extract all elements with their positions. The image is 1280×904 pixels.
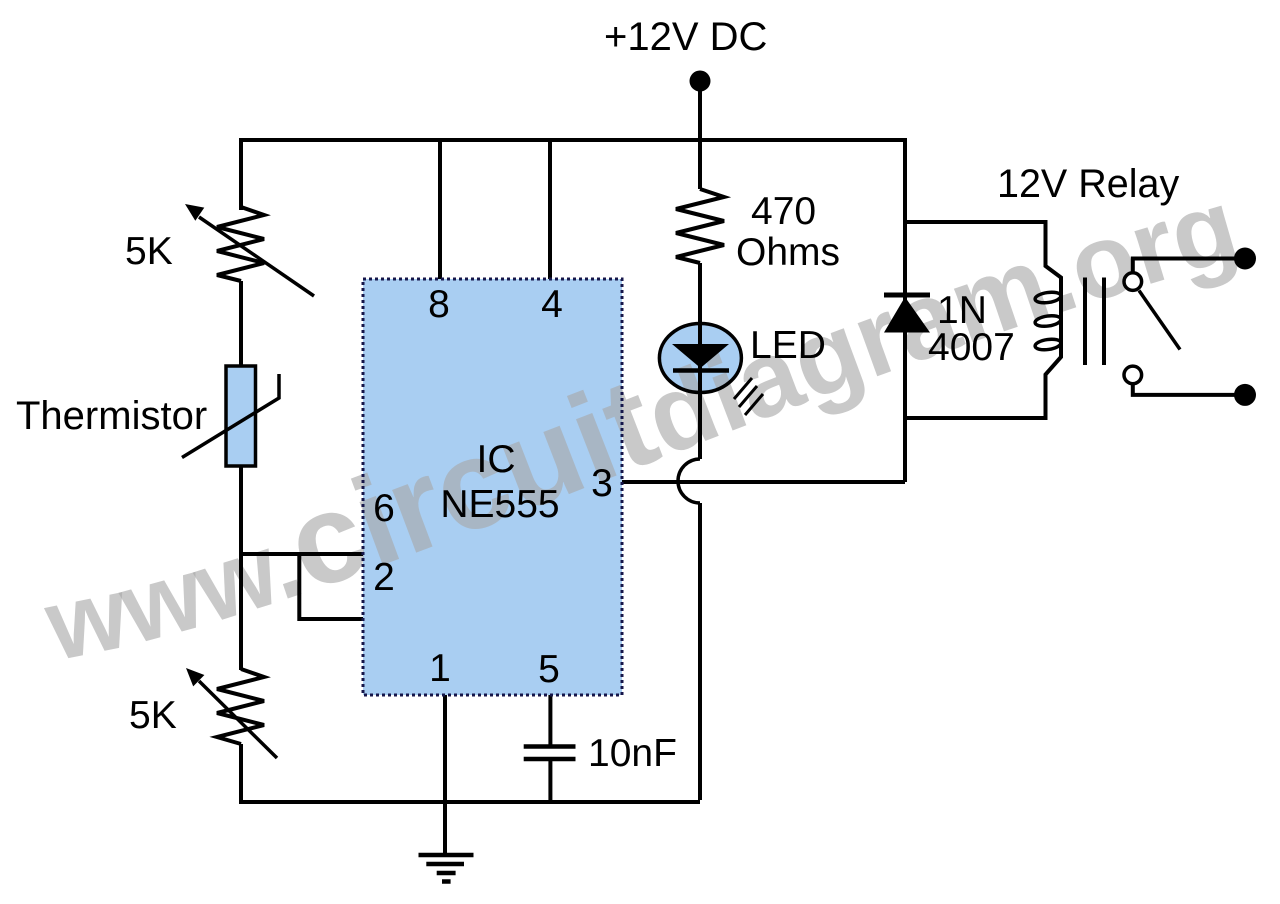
wire relay coil top branch — [905, 222, 1061, 418]
LED D2 body fill — [659, 324, 741, 393]
node terminal dot upper — [1234, 248, 1256, 270]
potentiometer R2 arrowhead — [186, 668, 204, 686]
svg-text:3: 3 — [591, 462, 613, 505]
potentiometer R2 5K zigzag — [217, 669, 264, 744]
svg-text:LED: LED — [750, 324, 826, 367]
svg-text:2: 2 — [373, 556, 395, 599]
resistor R3 470 Ohms zigzag — [676, 189, 724, 263]
svg-text:IC: IC — [477, 438, 516, 481]
IC U1 NE555 border — [363, 279, 622, 695]
diode D1 1N4007 cathode bar — [884, 293, 930, 298]
ground symbol — [419, 855, 474, 882]
potentiometer R1 5K zigzag — [217, 207, 264, 281]
wire pin 6 stub — [241, 552, 363, 556]
svg-text:10nF: 10nF — [588, 732, 677, 775]
capacitor C1 plates — [524, 747, 576, 760]
LED light rays — [734, 378, 763, 415]
thermistor body fill — [226, 366, 256, 466]
wire +12V feed down to resistor — [698, 81, 702, 189]
svg-text:4: 4 — [541, 283, 563, 326]
relay core lines — [1085, 278, 1104, 366]
wire thermistor down to lower pot — [239, 466, 243, 670]
watermark www.circuitdiagram.org — [55, 252, 1260, 660]
potentiometer R1 arrowhead — [185, 204, 204, 221]
LED D2 outline — [659, 324, 741, 393]
relay common contact circle — [1124, 273, 1142, 291]
svg-text:6: 6 — [373, 487, 395, 530]
wire resistor to LED — [698, 263, 702, 459]
wire LED down to bottom rail — [698, 503, 702, 800]
svg-text:Thermistor: Thermistor — [16, 394, 207, 438]
node +12V DC terminal dot — [690, 71, 711, 92]
wire capacitor to bottom rail — [548, 761, 552, 802]
wire pin 4 drop — [548, 140, 552, 279]
svg-text:1: 1 — [429, 647, 451, 690]
svg-text:12V Relay: 12V Relay — [997, 162, 1179, 206]
svg-text:5K: 5K — [125, 230, 173, 273]
LED D2 triangle — [672, 344, 729, 368]
LED D2 cathode bar — [673, 368, 729, 373]
relay coil loop 1 — [1034, 291, 1061, 305]
wire pin 3 to right rail — [622, 480, 905, 484]
wire top rail with left and right drops — [241, 140, 905, 482]
potentiometer R2 arrow line — [199, 681, 277, 758]
svg-text:5K: 5K — [129, 694, 177, 737]
thermistor RT1 diagonal — [182, 374, 279, 458]
thermistor RT1 outline — [226, 366, 256, 466]
wire pin 2 connector — [299, 554, 363, 619]
relay coil loop 2 — [1034, 314, 1061, 328]
svg-text:NE555: NE555 — [440, 483, 559, 526]
wire NO contact to terminal — [1133, 384, 1236, 395]
wire pin 1 to ground — [443, 695, 447, 853]
wire pin 8 drop — [438, 140, 442, 279]
wire common contact to terminal — [1133, 259, 1236, 273]
svg-text:8: 8 — [428, 283, 450, 326]
wire pot to thermistor — [239, 281, 243, 366]
svg-text:4007: 4007 — [928, 326, 1015, 369]
relay switch arm — [1139, 291, 1180, 350]
wire pin 5 to capacitor — [548, 695, 552, 745]
relay coil loop 3 — [1034, 338, 1061, 352]
svg-text:+12V DC: +12V DC — [604, 15, 767, 59]
potentiometer R1 arrow line — [199, 217, 314, 296]
wire lower pot to bottom rail — [241, 744, 700, 802]
IC U1 NE555 body fill — [363, 279, 622, 695]
svg-text:5: 5 — [538, 648, 560, 691]
svg-text:Ohms: Ohms — [736, 231, 840, 274]
relay NO contact circle — [1124, 366, 1142, 384]
diode D1 triangle — [884, 297, 930, 333]
wire hop over pin3 line — [678, 459, 700, 503]
node terminal dot lower — [1234, 384, 1256, 406]
svg-text:470: 470 — [751, 190, 816, 233]
